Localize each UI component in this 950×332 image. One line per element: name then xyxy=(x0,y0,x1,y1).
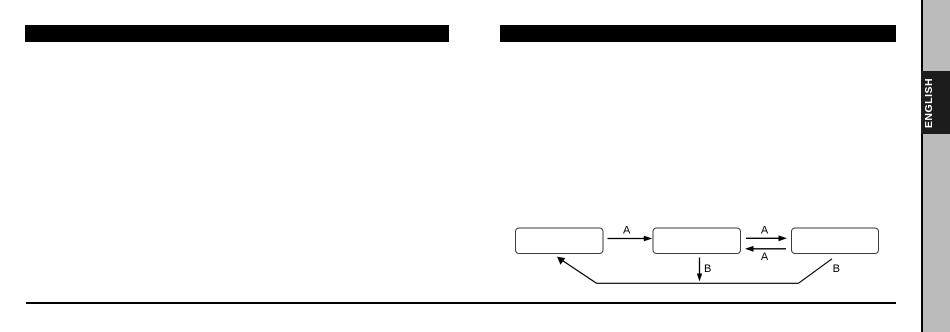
return line from box3 bottom to horizontal run xyxy=(798,259,832,284)
svg-text:B: B xyxy=(704,263,711,275)
left header bar xyxy=(25,25,449,42)
box 2 (middle) xyxy=(653,228,741,254)
box 3 (right) xyxy=(792,228,879,254)
right header bar xyxy=(500,25,896,42)
arrow A box2 to box3 (upper, rightward) xyxy=(746,235,787,241)
arrow B from box2 down to return line xyxy=(697,258,702,282)
sidebar strip left border xyxy=(921,0,923,332)
svg-text:B: B xyxy=(833,263,840,275)
ENGLISH tab label xyxy=(915,71,945,134)
return line horizontal run xyxy=(597,282,799,284)
svg-text:A: A xyxy=(761,251,769,263)
ENGLISH language tab xyxy=(921,71,950,134)
svg-text:A: A xyxy=(623,224,631,236)
bottom horizontal rule xyxy=(26,302,896,304)
box 1 (left) xyxy=(516,228,604,254)
arrow A box1 to box2 xyxy=(608,236,653,242)
arrow A box3 to box2 (lower, leftward) xyxy=(745,246,786,252)
svg-text:A: A xyxy=(761,224,769,236)
return arrow up into box1 xyxy=(557,257,597,284)
right gray sidebar strip xyxy=(923,0,950,332)
